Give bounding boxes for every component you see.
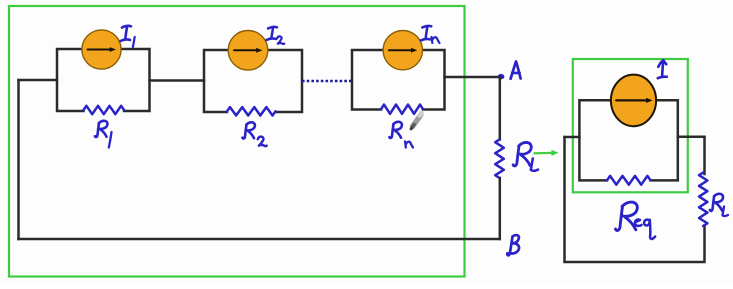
green box around equivalent source — [573, 59, 688, 192]
load resistor RL (left circuit) zigzag — [495, 140, 504, 179]
arrow inside I2 — [234, 49, 257, 51]
wire: left rail vertical — [17, 80, 20, 239]
wire: bus stub into R1 group — [19, 79, 58, 82]
label Rn — [389, 122, 402, 138]
dotted continuation wire between group 2 and group n — [302, 80, 352, 82]
label I (equivalent source) — [658, 60, 667, 78]
resistor R1 zigzag — [84, 106, 125, 114]
wire: node A down to RL — [499, 77, 502, 140]
label Req — [616, 202, 638, 230]
wire: left stub from outer loop to equivalent box — [565, 136, 580, 139]
label B at node B — [507, 235, 519, 255]
parallel box equivalent: source I with Req — [579, 100, 677, 180]
current source In (orange circle) — [383, 31, 422, 70]
label R1 — [95, 121, 108, 137]
parallel box 2: current source I2 with R2 — [204, 50, 302, 112]
resistor Req zigzag — [607, 176, 651, 185]
outer green boundary box — [9, 6, 465, 277]
wire: stub between group 1 and group 2 — [150, 79, 205, 82]
resistor Rn zigzag — [381, 105, 423, 114]
wire: RL down to node B — [499, 178, 502, 239]
label I1 — [121, 26, 132, 41]
wire: bottom bus from left rail to node B — [19, 238, 500, 241]
current source I2 (orange circle) — [228, 31, 268, 71]
arrow inside I1 — [88, 49, 111, 51]
current source I1 (orange circle) — [82, 30, 121, 69]
parallel box n: current source In with Rn — [352, 50, 445, 110]
label RL (left) — [513, 142, 531, 166]
label R2 — [242, 122, 255, 138]
arrow inside In — [389, 49, 412, 51]
label In — [421, 26, 432, 41]
current source I (equivalent, orange ellipse) — [611, 75, 656, 127]
resistor R2 zigzag — [227, 107, 276, 115]
wire: right stub from equivalent box to RL branch — [678, 136, 705, 139]
pen cursor near Rn — [411, 113, 422, 129]
label I2 — [267, 27, 278, 40]
label A at node A — [511, 62, 521, 79]
label RL (equivalent) — [710, 194, 723, 211]
load resistor RL (equivalent circuit) zigzag — [699, 173, 707, 227]
wire: stub from group n to node A — [445, 76, 501, 79]
node A dot — [498, 74, 505, 79]
wire: outer loop of equivalent circuit — [565, 137, 705, 262]
arrow inside equivalent source — [616, 99, 646, 101]
green arrow pointing from RL label to equivalent circuit — [534, 152, 554, 155]
parallel box 1: current source I1 with R1 — [57, 49, 150, 111]
